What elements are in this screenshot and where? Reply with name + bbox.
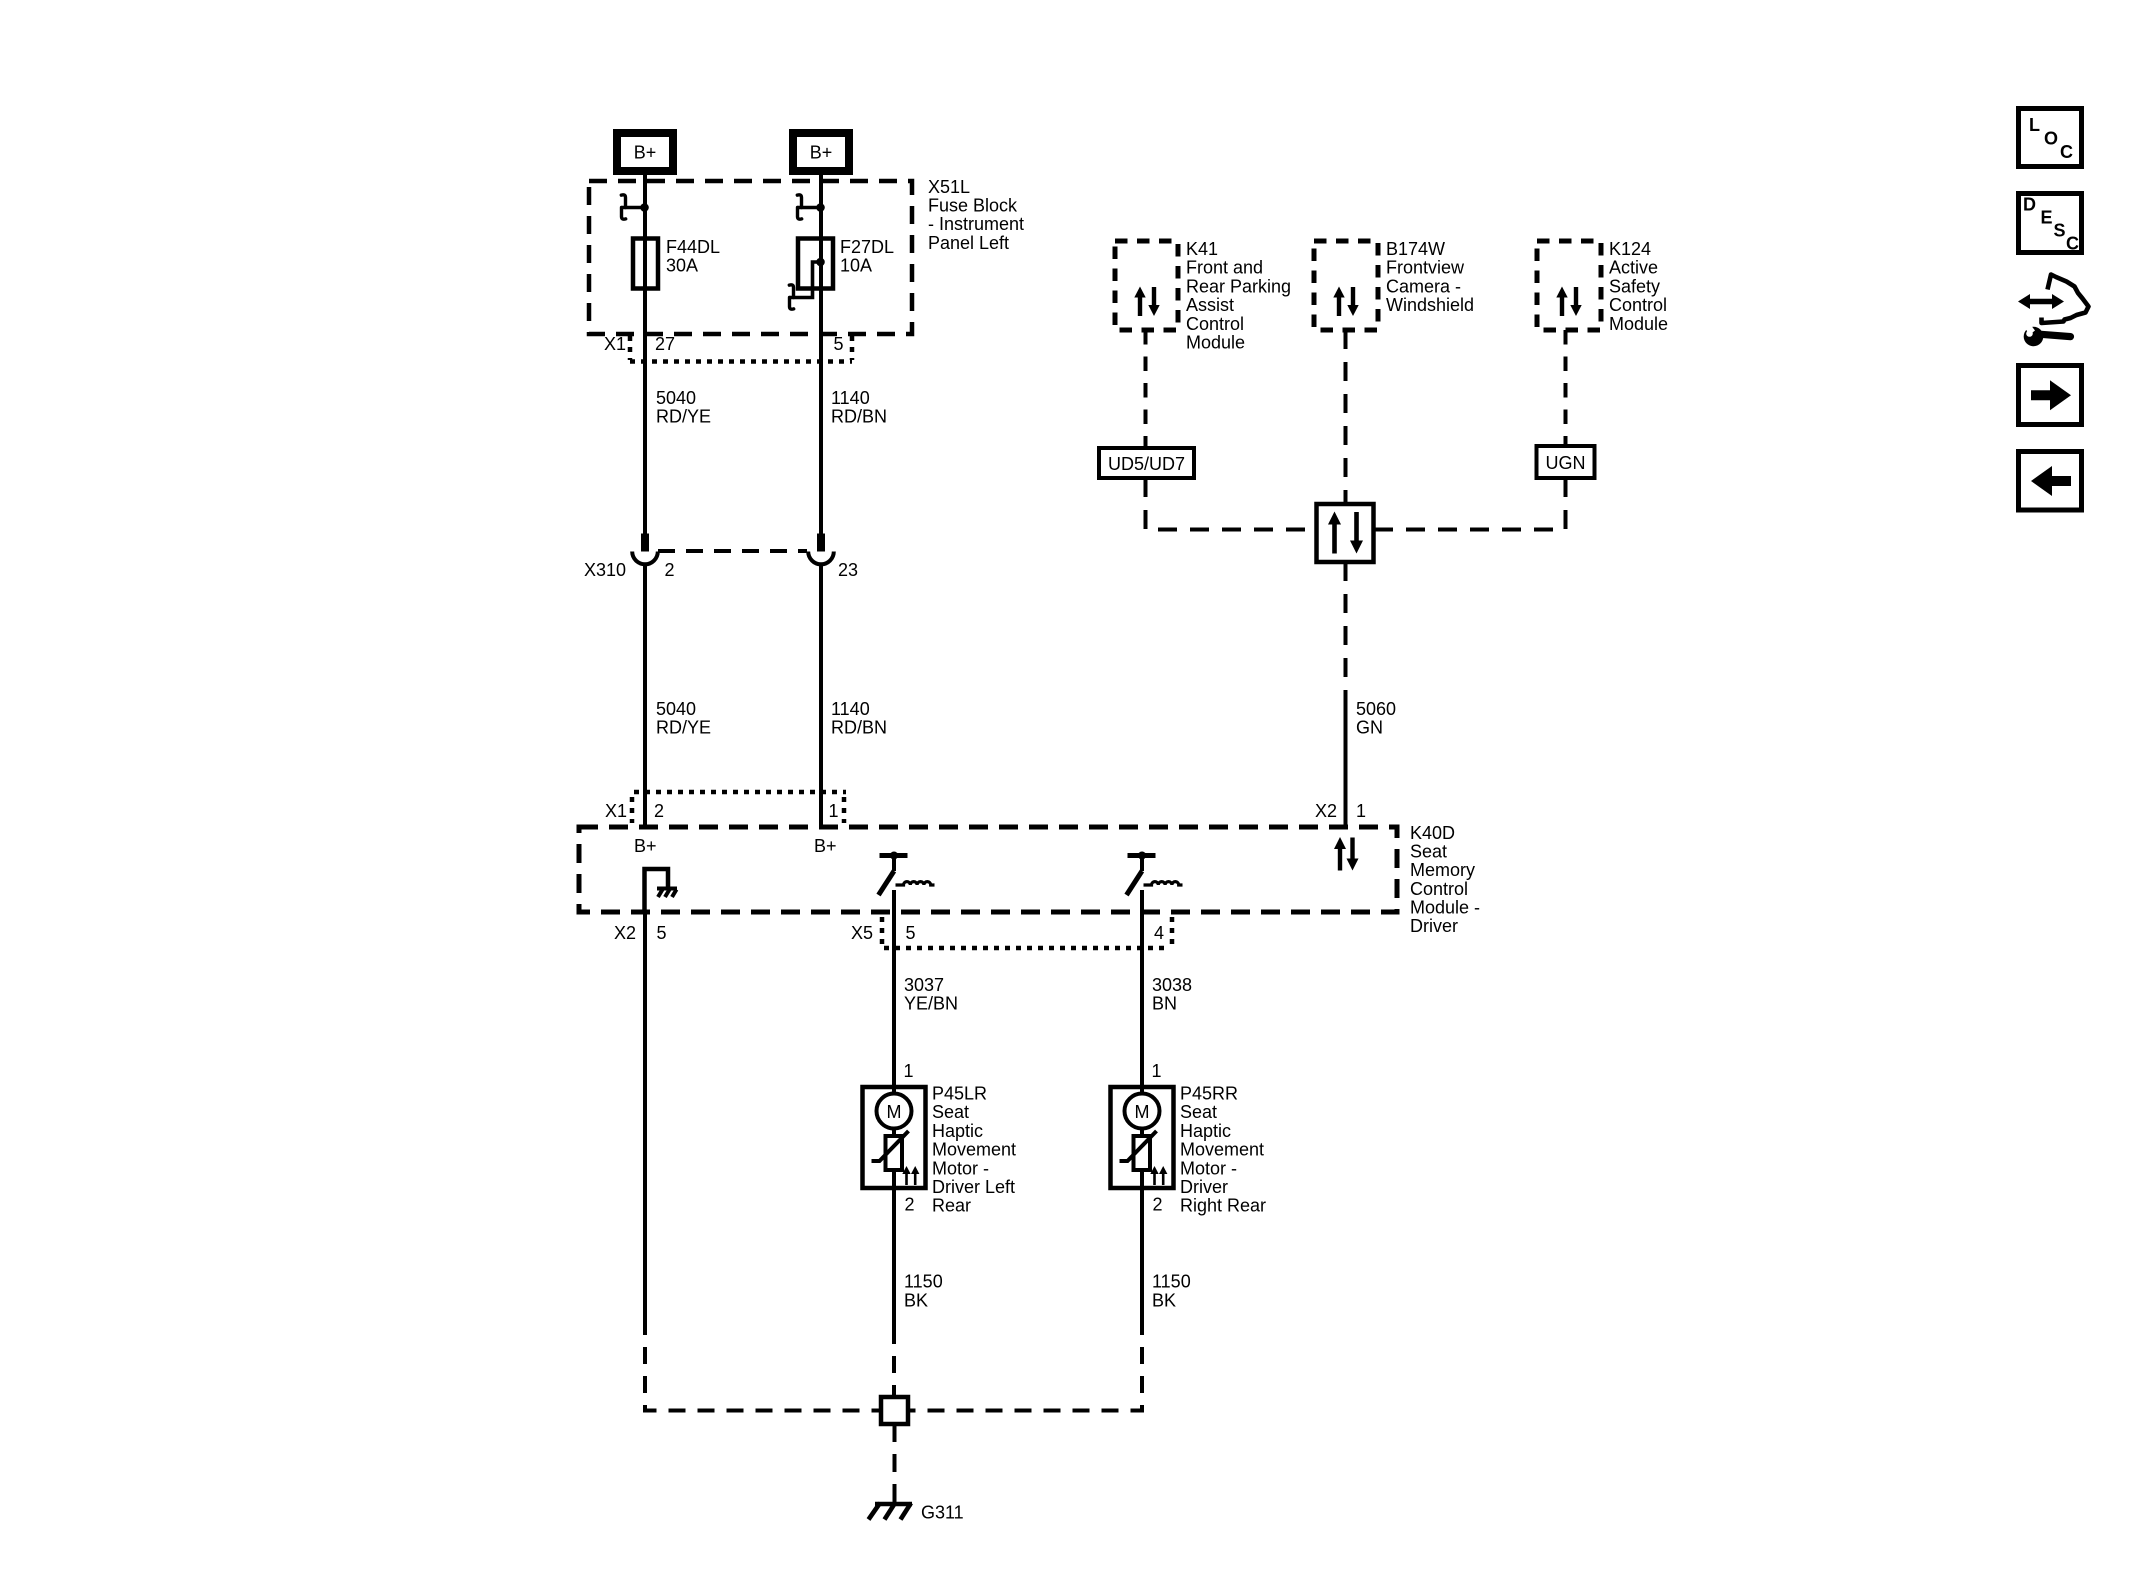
svg-text:Movement: Movement xyxy=(932,1140,1016,1160)
svg-text:Module: Module xyxy=(1186,333,1245,353)
svg-text:Active: Active xyxy=(1609,258,1658,278)
svg-text:1: 1 xyxy=(1152,1061,1162,1081)
svg-text:X2: X2 xyxy=(614,923,636,943)
fuse block X51L box xyxy=(589,181,912,334)
svg-text:YE/BN: YE/BN xyxy=(904,994,958,1014)
circuit breaker F27DL 10A xyxy=(798,239,833,289)
connector row X1 into K40D xyxy=(632,792,846,823)
svg-text:Frontview: Frontview xyxy=(1386,258,1465,278)
connector row X2 into K40D xyxy=(1315,801,1366,821)
svg-text:5040: 5040 xyxy=(656,388,696,408)
svg-text:2: 2 xyxy=(1153,1195,1163,1215)
ground wire X2-5 down xyxy=(643,912,647,1327)
svg-text:Seat: Seat xyxy=(932,1102,969,1122)
svg-text:Memory: Memory xyxy=(1410,860,1475,880)
svg-text:Control: Control xyxy=(1410,879,1468,899)
svg-text:27: 27 xyxy=(655,334,675,354)
serial data wire B174W to comm box xyxy=(1344,330,1348,504)
svg-text:B+: B+ xyxy=(814,836,837,856)
svg-text:O: O xyxy=(2044,129,2058,149)
svg-text:10A: 10A xyxy=(840,256,872,276)
svg-text:X1: X1 xyxy=(604,334,626,354)
svg-text:X51L: X51L xyxy=(928,177,970,197)
icon DESC button xyxy=(2019,194,2082,254)
svg-text:1: 1 xyxy=(829,801,839,821)
svg-text:4: 4 xyxy=(1154,923,1164,943)
seat memory module K40D box xyxy=(579,827,1397,912)
seat haptic motor P45RR xyxy=(1111,1087,1174,1188)
svg-text:5060: 5060 xyxy=(1356,699,1396,719)
svg-text:C: C xyxy=(2066,234,2079,254)
X51L label xyxy=(928,177,1024,253)
node tap clip on wire A xyxy=(621,195,649,219)
wire label 5040 RD/YE lower xyxy=(656,699,711,738)
svg-text:2: 2 xyxy=(905,1195,915,1215)
internal switch with heater left xyxy=(879,852,935,896)
svg-text:Safety: Safety xyxy=(1609,276,1660,296)
X310 dashed link xyxy=(658,549,807,553)
svg-text:K40D: K40D xyxy=(1410,823,1455,843)
svg-text:Control: Control xyxy=(1609,295,1667,315)
svg-text:G311: G311 xyxy=(921,1503,964,1523)
svg-text:- Instrument: - Instrument xyxy=(928,214,1024,234)
connector row X1 under fuse block xyxy=(630,336,852,362)
UGN RPO box xyxy=(1537,446,1595,478)
svg-text:F27DL: F27DL xyxy=(840,237,894,257)
svg-text:Motor -: Motor - xyxy=(1180,1158,1237,1178)
svg-text:5: 5 xyxy=(906,923,916,943)
svg-text:3037: 3037 xyxy=(904,975,944,995)
svg-text:3038: 3038 xyxy=(1152,975,1192,995)
serial data wire UD5/UD7 to splice box xyxy=(1146,478,1317,530)
serial data wire UGN to comm box xyxy=(1374,478,1566,530)
svg-text:Camera -: Camera - xyxy=(1386,276,1461,296)
svg-text:BK: BK xyxy=(904,1291,928,1311)
svg-text:Module -: Module - xyxy=(1410,897,1480,917)
svg-text:5040: 5040 xyxy=(656,699,696,719)
svg-text:1150: 1150 xyxy=(1152,1272,1191,1292)
icon LOC button xyxy=(2019,109,2082,167)
icon back arrow button xyxy=(2019,452,2082,511)
internal switch with heater right xyxy=(1127,852,1183,896)
icon vehicle repair xyxy=(2018,275,2089,347)
svg-text:F44DL: F44DL xyxy=(666,237,720,257)
svg-text:K124: K124 xyxy=(1609,239,1651,259)
svg-text:BK: BK xyxy=(1152,1291,1176,1311)
node tap clip on wire B xyxy=(797,195,825,219)
svg-text:Right Rear: Right Rear xyxy=(1180,1196,1266,1216)
motor wire right (3038) xyxy=(1140,890,1144,1087)
X310 labels xyxy=(584,560,858,580)
serial data wire K124 to UGN xyxy=(1564,330,1568,446)
ground wire 1150 BK left xyxy=(892,1188,896,1327)
svg-text:Haptic: Haptic xyxy=(932,1121,983,1141)
inline connector X310 left xyxy=(632,534,658,565)
internal ground inside K40D xyxy=(645,869,678,912)
svg-text:X5: X5 xyxy=(851,923,873,943)
svg-text:Control: Control xyxy=(1186,314,1244,334)
connector row X5 below K40D xyxy=(882,917,1172,948)
svg-text:Driver: Driver xyxy=(1410,916,1458,936)
seat haptic motor P45LR xyxy=(863,1087,926,1188)
svg-text:2: 2 xyxy=(654,801,664,821)
active safety module K124 box xyxy=(1537,241,1601,330)
wire 5060 GN xyxy=(1344,700,1348,827)
motor wire left (3037) xyxy=(892,890,896,1087)
fuse F44DL 30A xyxy=(633,239,658,289)
svg-text:X2: X2 xyxy=(1315,801,1337,821)
svg-text:UD5/UD7: UD5/UD7 xyxy=(1108,454,1185,474)
wire B+2 vertical xyxy=(819,175,823,534)
inline connector X310 right xyxy=(808,534,834,565)
B+ supply 1 xyxy=(617,133,673,171)
svg-text:Module: Module xyxy=(1609,314,1668,334)
svg-text:Driver: Driver xyxy=(1180,1177,1228,1197)
svg-text:Haptic: Haptic xyxy=(1180,1121,1231,1141)
svg-text:Seat: Seat xyxy=(1180,1102,1217,1122)
ground wire 1150 BK right xyxy=(1140,1188,1144,1327)
wire splice to ground xyxy=(893,1424,897,1503)
svg-text:D: D xyxy=(2023,195,2036,215)
wire B lower xyxy=(819,565,823,828)
serial data communication box xyxy=(1317,504,1374,562)
frontview camera B174W box xyxy=(1314,241,1378,330)
svg-text:UGN: UGN xyxy=(1546,453,1586,473)
svg-text:1: 1 xyxy=(904,1061,914,1081)
svg-text:RD/YE: RD/YE xyxy=(656,718,711,738)
svg-text:RD/BN: RD/BN xyxy=(831,407,887,427)
svg-text:RD/BN: RD/BN xyxy=(831,718,887,738)
wire label 1140 RD/BN upper xyxy=(831,388,887,427)
svg-text:Front and: Front and xyxy=(1186,258,1263,278)
wire B+1 to fuse F44DL xyxy=(643,175,647,534)
svg-text:X310: X310 xyxy=(584,560,626,580)
serial data wire comm box down xyxy=(1344,562,1348,700)
svg-text:Assist: Assist xyxy=(1186,295,1234,315)
serial data wire K41 to UD5/UD7 xyxy=(1144,330,1148,448)
svg-text:C: C xyxy=(2060,142,2073,162)
svg-text:Motor -: Motor - xyxy=(932,1158,989,1178)
svg-text:1150: 1150 xyxy=(904,1272,943,1292)
svg-text:2: 2 xyxy=(665,560,675,580)
svg-text:23: 23 xyxy=(838,560,858,580)
svg-text:30A: 30A xyxy=(666,256,698,276)
svg-text:BN: BN xyxy=(1152,994,1177,1014)
svg-text:Rear Parking: Rear Parking xyxy=(1186,276,1291,296)
wire label 5040 RD/YE upper xyxy=(656,388,711,427)
svg-text:Windshield: Windshield xyxy=(1386,295,1474,315)
svg-text:Fuse Block: Fuse Block xyxy=(928,196,1018,216)
K40D serial data arrows xyxy=(1334,837,1359,871)
svg-text:K41: K41 xyxy=(1186,239,1218,259)
ground splice xyxy=(881,1397,908,1424)
svg-text:Panel Left: Panel Left xyxy=(928,233,1009,253)
svg-text:Driver Left: Driver Left xyxy=(932,1177,1015,1197)
svg-text:P45LR: P45LR xyxy=(932,1084,987,1104)
wire label 1140 RD/BN lower xyxy=(831,699,887,738)
B+ supply 2 xyxy=(793,133,849,171)
svg-text:1140: 1140 xyxy=(831,699,870,719)
svg-text:S: S xyxy=(2054,221,2066,241)
wire A lower xyxy=(643,565,647,828)
svg-text:5: 5 xyxy=(657,923,667,943)
svg-text:1: 1 xyxy=(1356,801,1366,821)
svg-text:E: E xyxy=(2041,208,2053,228)
svg-text:L: L xyxy=(2029,115,2040,135)
connector row X2-5 below K40D xyxy=(614,923,667,943)
svg-text:B174W: B174W xyxy=(1386,239,1445,259)
icon next arrow button xyxy=(2019,366,2082,425)
svg-text:1140: 1140 xyxy=(831,388,870,408)
parking assist module K41 box xyxy=(1115,241,1178,330)
svg-text:RD/YE: RD/YE xyxy=(656,407,711,427)
svg-text:X1: X1 xyxy=(605,801,627,821)
svg-text:Movement: Movement xyxy=(1180,1140,1264,1160)
ground G311 xyxy=(869,1503,913,1520)
svg-text:Rear: Rear xyxy=(932,1196,971,1216)
svg-text:Seat: Seat xyxy=(1410,842,1447,862)
svg-text:P45RR: P45RR xyxy=(1180,1084,1238,1104)
UD5/UD7 RPO box xyxy=(1099,448,1194,478)
svg-text:GN: GN xyxy=(1356,718,1383,738)
svg-text:B+: B+ xyxy=(634,836,657,856)
svg-text:5: 5 xyxy=(834,334,844,354)
